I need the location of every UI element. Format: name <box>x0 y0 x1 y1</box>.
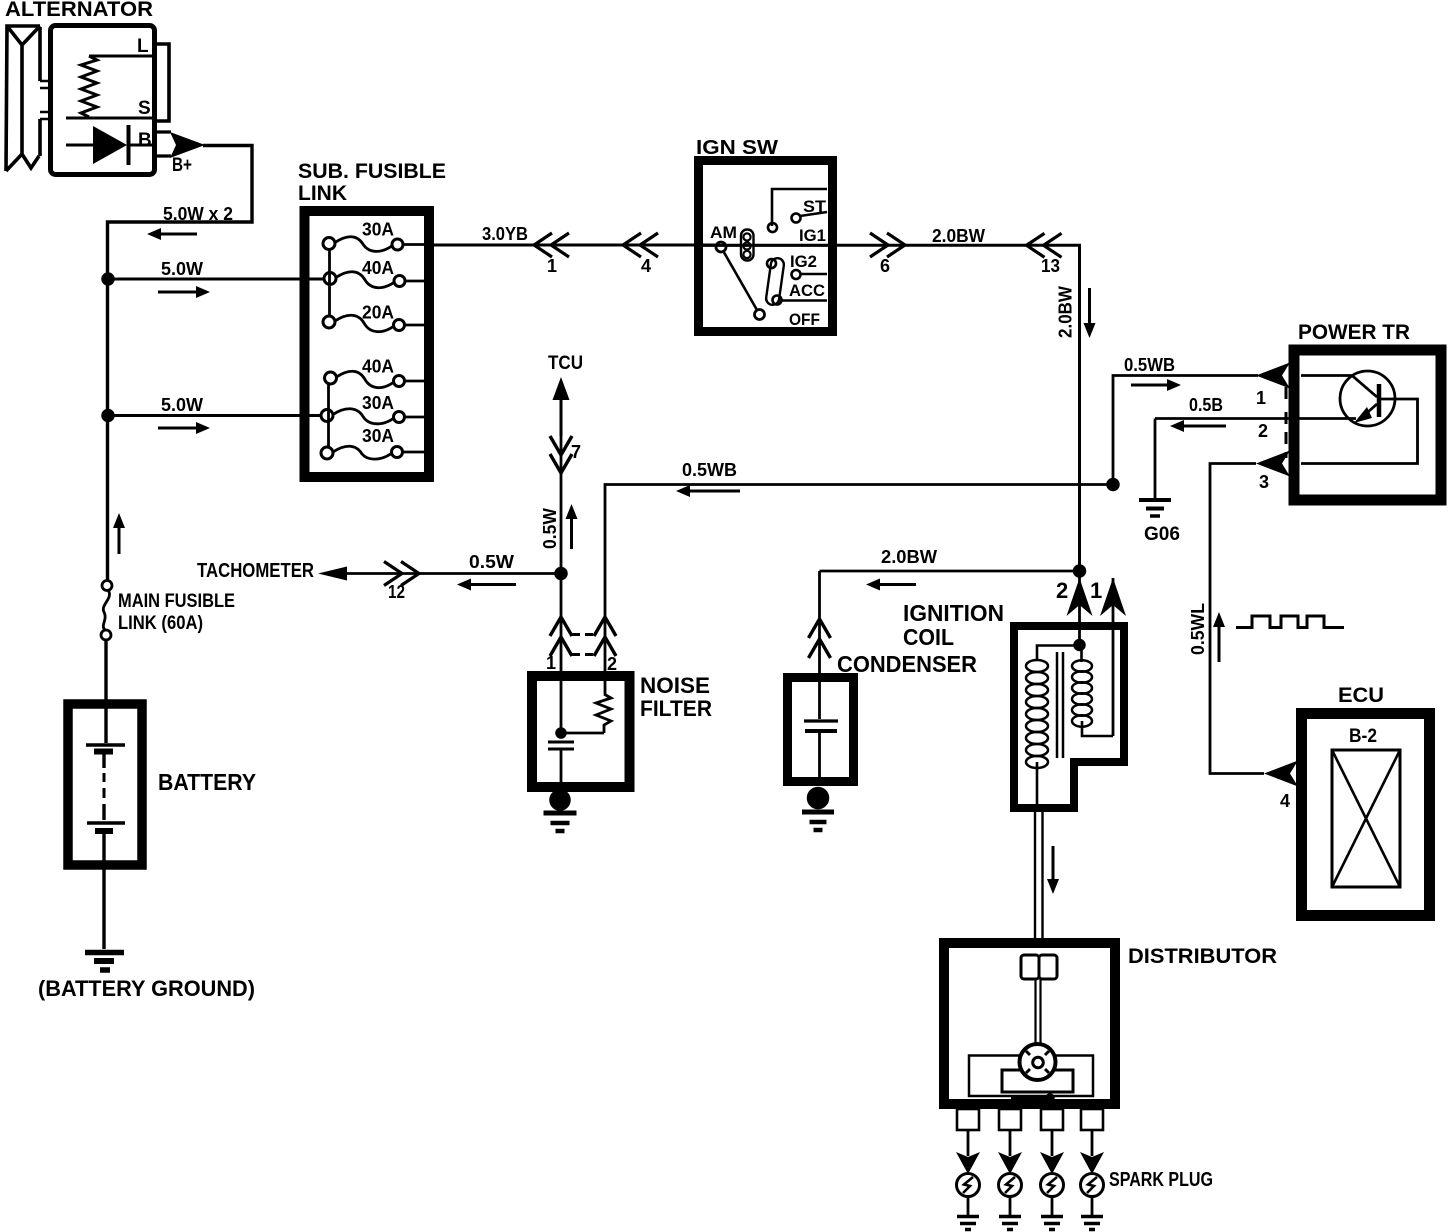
spark plug SP4 <box>1081 1174 1104 1197</box>
svg-text:0.5W: 0.5W <box>469 552 514 572</box>
wire coil pin2 vertical <box>1078 569 1081 645</box>
noise filter pin2 chevrons <box>594 617 616 636</box>
arrow right (row2 wire) <box>196 286 210 298</box>
svg-text:SPARK PLUG: SPARK PLUG <box>1109 1169 1213 1191</box>
fuse bank jumper rows4-6 <box>327 384 330 447</box>
svg-text:IGNITION: IGNITION <box>903 600 1004 626</box>
junction node alternator/fuse row2 <box>103 274 114 285</box>
alternator diode D1 <box>66 144 94 147</box>
arrow up (battery feed) <box>113 513 125 528</box>
ground G06 symbol <box>1139 498 1171 502</box>
junction 2.0BW/coil node <box>1074 566 1085 577</box>
wire coil pin1/secondary <box>1112 578 1115 736</box>
svg-text:MAIN FUSIBLE: MAIN FUSIBLE <box>118 590 235 612</box>
coil pin 2 arrow <box>1067 578 1093 616</box>
spark plug terminal 3 <box>1041 1109 1063 1130</box>
junction tachometer node <box>556 568 567 579</box>
svg-text:OFF: OFF <box>789 310 820 329</box>
spark plug ground 2 <box>1009 1197 1012 1216</box>
arrow left (0.5B) <box>1170 420 1184 432</box>
svg-text:1: 1 <box>1090 578 1102 603</box>
connector 4 chevrons <box>623 233 641 257</box>
svg-text:B+: B+ <box>172 155 192 176</box>
IGN SW ST contact <box>792 214 801 223</box>
IG2-ACC connector block <box>765 257 784 305</box>
spark plug terminal 4 <box>1081 1109 1103 1130</box>
noise filter internal junction <box>561 732 604 735</box>
condenser connector chevrons <box>809 619 831 638</box>
svg-text:0.5WB: 0.5WB <box>682 460 737 480</box>
arrow up (0.5WL) <box>1213 612 1225 627</box>
battery ground symbol <box>85 950 124 956</box>
svg-text:2: 2 <box>1056 578 1068 603</box>
connector dashes pins1-2 <box>572 633 596 636</box>
connector dashed line <box>1285 387 1288 458</box>
connector 12 chevrons <box>384 562 402 586</box>
distributor contact plate outer <box>969 1056 1093 1097</box>
spark plug connector arrow 1 <box>956 1152 980 1174</box>
svg-text:4: 4 <box>641 256 651 276</box>
svg-text:3: 3 <box>1259 472 1269 492</box>
B terminal stub <box>156 132 171 156</box>
spark plug wire 4 <box>1091 1130 1094 1156</box>
alternator field coil L1 <box>81 56 97 117</box>
arrow down (2.0BW) <box>1084 323 1096 338</box>
alternator pulley <box>6 26 40 171</box>
svg-text:0.5B: 0.5B <box>1189 395 1223 415</box>
condenser capacitor C1 <box>804 719 838 722</box>
spark plug connector arrow 3 <box>1040 1152 1064 1174</box>
fuse F4 40A <box>325 372 337 384</box>
wire 3.0YB <box>429 244 717 247</box>
connector 1 chevrons <box>534 233 552 257</box>
battery cell dashes <box>103 773 106 798</box>
arrow right (0.5WB powerTR) <box>1167 379 1181 391</box>
spark plug ground 4 <box>1091 1197 1094 1216</box>
svg-text:30A: 30A <box>362 426 394 446</box>
fuse F2 40A <box>324 273 336 285</box>
IGN SW main pole line AM-IG1 <box>703 244 832 247</box>
svg-text:1: 1 <box>1256 388 1266 408</box>
fuse box <box>305 211 430 477</box>
power TR pin1 arrow <box>1256 363 1290 389</box>
svg-text:LINK (60A): LINK (60A) <box>118 612 203 634</box>
distributor shaft double line <box>1034 979 1036 1045</box>
switch lever <box>724 252 758 311</box>
coil primary bottom lead <box>1036 762 1039 809</box>
fuse F3 20A <box>323 316 335 328</box>
svg-text:CONDENSER: CONDENSER <box>837 651 977 677</box>
coil internal junction <box>1075 640 1085 650</box>
battery B1 box <box>68 704 142 865</box>
svg-text:40A: 40A <box>362 258 394 278</box>
transistor emitter <box>1360 404 1377 419</box>
svg-text:TCU: TCU <box>548 353 583 374</box>
svg-text:20A: 20A <box>362 303 394 323</box>
svg-text:ALTERNATOR: ALTERNATOR <box>5 0 153 21</box>
noise filter resistor <box>596 694 611 733</box>
wire 0.5WB noise filter to powerTR junction <box>605 485 1113 695</box>
svg-text:IG1: IG1 <box>799 226 826 245</box>
svg-text:2.0BW: 2.0BW <box>932 226 985 246</box>
svg-text:40A: 40A <box>362 357 394 377</box>
arrow left (condenser wire) <box>866 579 880 591</box>
spark plug wire 3 <box>1051 1130 1054 1156</box>
svg-text:ST: ST <box>803 197 827 216</box>
coil secondary top lead <box>1080 648 1083 662</box>
spark plug connector arrow 4 <box>1080 1152 1104 1174</box>
spark plug SP3 <box>1041 1174 1064 1197</box>
coil primary top lead <box>1037 646 1077 661</box>
battery cell wires <box>104 640 106 949</box>
transistor base line <box>1301 376 1377 398</box>
wire 0.5WL <box>1210 464 1264 774</box>
svg-text:30A: 30A <box>362 393 394 413</box>
arrow right (row5 wire) <box>196 422 210 434</box>
svg-text:2.0BW: 2.0BW <box>881 547 937 567</box>
svg-text:B-2: B-2 <box>1349 726 1377 747</box>
transistor Q1 circle <box>1340 371 1395 426</box>
AM contact circle <box>716 242 726 252</box>
svg-text:FILTER: FILTER <box>640 696 712 721</box>
L-S external bracket <box>156 44 169 121</box>
junction 0.5WB node <box>1108 479 1119 490</box>
fuse F6 30A <box>321 447 333 459</box>
power TR pin2 wire <box>1155 417 1301 420</box>
svg-text:0.5WB: 0.5WB <box>1124 355 1175 375</box>
distributor contact arm <box>1011 1097 1046 1100</box>
spark plug ground 3 <box>1051 1197 1054 1216</box>
spark plug terminal 2 <box>999 1109 1021 1130</box>
wire 5.0W to fuse row5 <box>108 414 321 417</box>
spark plug SP1 <box>957 1174 980 1197</box>
svg-text:ECU: ECU <box>1338 684 1384 707</box>
power TR pin3 arrow <box>1256 451 1290 477</box>
connector 6 chevrons <box>870 233 888 257</box>
noise filter capacitor <box>548 741 574 744</box>
fuse F5 30A <box>321 410 333 422</box>
ECU box <box>1302 714 1430 916</box>
coil primary winding <box>1026 660 1048 672</box>
distributor contact plate inner <box>1002 1070 1073 1092</box>
spark plug wire 1 <box>967 1130 970 1156</box>
svg-text:13: 13 <box>1041 256 1060 276</box>
spark plug wire 2 <box>1009 1130 1012 1156</box>
transistor collector loop (pin3) <box>1301 399 1418 464</box>
svg-text:COIL: COIL <box>903 624 954 650</box>
power TR box <box>1294 350 1441 500</box>
condenser ground <box>808 788 828 808</box>
svg-text:B: B <box>138 130 152 151</box>
alternator pulley shaft <box>40 81 50 119</box>
coil pin 1 arrow <box>1100 578 1126 616</box>
wire 5.0W to fuse row2 <box>108 278 323 281</box>
coil secondary bottom lead <box>1082 721 1113 736</box>
svg-text:0.5WL: 0.5WL <box>1188 603 1208 655</box>
noise filter box <box>532 676 630 787</box>
svg-text:IG2: IG2 <box>790 252 817 271</box>
arrow up to TCU <box>553 377 570 400</box>
ACC contact line <box>782 299 828 302</box>
svg-text:1: 1 <box>546 653 556 673</box>
svg-text:6: 6 <box>880 256 890 276</box>
battery cell 1 plates <box>86 743 125 747</box>
arrow up (0.5W TCU) <box>566 504 578 519</box>
wire 2.0BW ignition feed <box>834 245 1080 569</box>
fuse bank jumper rows1-3 <box>328 250 331 317</box>
distributor box <box>944 943 1115 1104</box>
wire 0.5WB powerTR base <box>1113 376 1258 485</box>
svg-text:ACC: ACC <box>789 281 825 300</box>
svg-text:G06: G06 <box>1144 524 1180 545</box>
ignition coil box <box>1014 626 1124 808</box>
wire 2.0BW to condenser <box>820 570 1080 573</box>
svg-text:5.0W: 5.0W <box>161 395 203 415</box>
arrow left (tach wire) <box>457 579 471 591</box>
spark plug SP2 <box>999 1174 1022 1197</box>
svg-text:AM: AM <box>710 223 737 242</box>
distributor cap terminals <box>1021 955 1039 979</box>
IG2 contact <box>792 270 801 279</box>
rotor notches <box>1026 1051 1049 1073</box>
alternator box <box>51 26 155 175</box>
arrow left on 5.0W x 2 wire <box>147 228 161 240</box>
IGN SW start contact line <box>772 189 827 226</box>
wire B+ to main bus <box>108 146 253 581</box>
distributor rotor <box>1020 1044 1056 1080</box>
svg-text:30A: 30A <box>362 220 394 240</box>
wire 0.5B to ground <box>1154 419 1157 499</box>
svg-text:L: L <box>137 36 149 57</box>
B+ output arrow <box>170 132 205 158</box>
svg-text:BATTERY: BATTERY <box>158 769 256 795</box>
ECU pin4 arrow <box>1264 761 1298 787</box>
condenser wire down <box>818 571 821 719</box>
svg-text:12: 12 <box>388 582 405 602</box>
svg-text:5.0W x 2: 5.0W x 2 <box>163 204 233 224</box>
svg-text:S: S <box>138 98 151 119</box>
battery cell 2 plates <box>87 821 125 825</box>
coil secondary winding <box>1072 660 1092 671</box>
pulse waveform <box>1236 616 1344 628</box>
coil core <box>1056 652 1059 758</box>
condenser box <box>788 678 854 782</box>
svg-text:7: 7 <box>571 442 581 462</box>
wire TCU to noise filter pin1 <box>560 574 563 733</box>
ignition switch box <box>699 161 833 332</box>
transistor emitter wire (pin2) <box>1301 417 1356 420</box>
arrow left (0.5WB) <box>676 485 690 497</box>
svg-text:DISTRIBUTOR: DISTRIBUTOR <box>1128 945 1277 968</box>
coil high tension double line <box>1034 812 1036 940</box>
junction node battery/fuse row5 <box>103 410 114 421</box>
svg-text:0.5W: 0.5W <box>540 508 560 549</box>
svg-text:SUB. FUSIBLE: SUB. FUSIBLE <box>298 160 446 183</box>
tachometer arrowhead <box>318 567 347 581</box>
svg-text:1: 1 <box>547 256 557 276</box>
svg-text:5.0W: 5.0W <box>161 259 203 279</box>
AM-IG1 connector block <box>741 230 754 261</box>
connector 7 chevrons down <box>550 436 572 455</box>
noise filter ground <box>551 791 570 810</box>
svg-text:4: 4 <box>1280 791 1290 811</box>
main fusible link 60A <box>102 581 112 591</box>
TCU wire vertical <box>560 390 563 574</box>
terminal S line <box>66 117 153 120</box>
svg-text:LINK: LINK <box>298 182 347 205</box>
svg-text:POWER TR: POWER TR <box>1298 321 1410 344</box>
svg-text:2.0BW: 2.0BW <box>1056 286 1076 338</box>
svg-text:2: 2 <box>1258 421 1268 441</box>
svg-text:IGN SW: IGN SW <box>696 137 778 159</box>
ECU internal block <box>1332 750 1400 887</box>
fuse F1 30A <box>323 238 335 250</box>
svg-text:NOISE: NOISE <box>640 673 710 698</box>
spark plug ground 1 <box>967 1197 970 1216</box>
spark plug terminal 1 <box>957 1109 979 1130</box>
svg-text:3.0YB: 3.0YB <box>482 224 528 244</box>
transistor bar <box>1377 384 1382 417</box>
wire to tachometer <box>330 572 561 575</box>
connector 13 chevrons <box>1027 233 1045 257</box>
arrow down to distributor <box>1047 879 1059 894</box>
svg-text:(BATTERY GROUND): (BATTERY GROUND) <box>38 976 255 1001</box>
spark plug connector arrow 2 <box>998 1152 1022 1174</box>
noise filter pin1 chevrons <box>550 617 572 636</box>
svg-text:TACHOMETER: TACHOMETER <box>197 560 314 582</box>
